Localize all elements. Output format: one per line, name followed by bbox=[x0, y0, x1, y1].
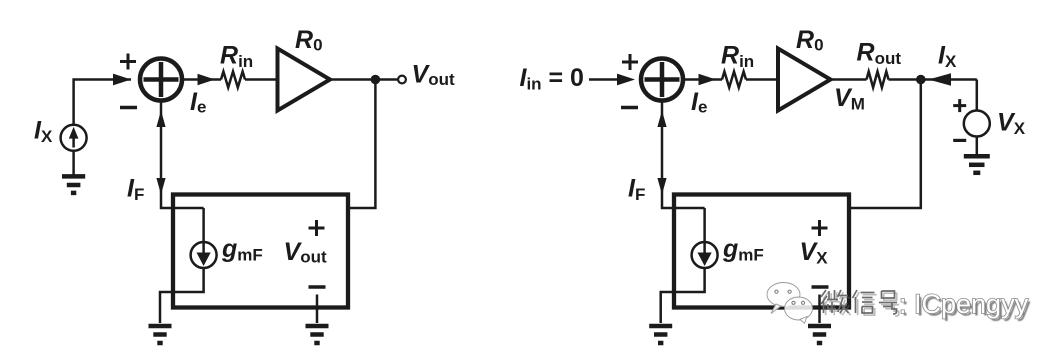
ground G4 bbox=[964, 156, 990, 173]
watermark latin text ICpengyy bbox=[899, 289, 1031, 321]
wire Iin to summing node S2 bbox=[589, 74, 635, 86]
watermark chinese chars shadow bbox=[823, 292, 899, 316]
node Vout1 junction dot bbox=[371, 75, 381, 85]
svg-text:: ICpengyy: : ICpengyy bbox=[899, 289, 1029, 319]
wire Ie1 with arrow bbox=[183, 74, 221, 85]
ground G2 bbox=[149, 326, 172, 343]
stub to ground G3 bbox=[316, 295, 319, 324]
feedback network box F2 bbox=[674, 195, 849, 308]
current source IX1 bbox=[61, 125, 87, 151]
summing node S2 bbox=[641, 59, 683, 101]
sense port minus sign F1 bbox=[309, 285, 326, 288]
sense port plus sign F2 bbox=[812, 220, 828, 236]
ground G3 bbox=[306, 326, 329, 343]
voltage source VX bbox=[964, 111, 990, 137]
resistor Rout2 bbox=[867, 72, 889, 88]
wire corner down to VX bbox=[976, 80, 979, 112]
ground G5 bbox=[649, 326, 672, 343]
ground G1 under IX1 bbox=[62, 151, 85, 193]
plus sign of VX bbox=[953, 99, 966, 112]
controlled source gmF2 bbox=[692, 242, 718, 268]
wire Rin1 to amp A1 bbox=[245, 78, 278, 81]
op-amp A2 bbox=[778, 49, 831, 111]
feedback network box F1 bbox=[173, 195, 348, 308]
wire gmF2 to ground G5 bbox=[661, 268, 705, 323]
plus sign at S2 input bbox=[622, 54, 638, 70]
wire output node to box F1 bbox=[350, 80, 375, 209]
resistor Rin1 bbox=[221, 72, 245, 88]
feedback wire IF2 with arrows bbox=[657, 102, 704, 244]
node X2 junction dot bbox=[916, 75, 926, 85]
wire A2 to resistor Rout2 bbox=[831, 78, 867, 81]
stub to ground G6 bbox=[818, 295, 821, 324]
feedback wire IF1 with arrows bbox=[156, 102, 203, 244]
resistor Rin2 bbox=[722, 72, 746, 88]
wire node X2 to box F2 bbox=[851, 80, 921, 209]
controlled source gmF1 bbox=[191, 242, 217, 268]
wire gmF1 to ground G2 bbox=[160, 268, 204, 323]
wire Ie2 with arrow bbox=[684, 74, 722, 85]
wire VX to ground G4 bbox=[976, 137, 979, 155]
minus sign at S1 bbox=[120, 106, 137, 109]
sense port minus sign F2 bbox=[812, 285, 829, 288]
wire Rin2 to amp A2 bbox=[746, 78, 778, 81]
minus sign at S2 bbox=[621, 106, 638, 109]
ground G6 bbox=[808, 326, 831, 343]
sense port plus sign F1 bbox=[309, 220, 325, 236]
wire A1 to output terminal bbox=[330, 78, 398, 81]
watermark chinese chars wei xin hao bbox=[821, 290, 897, 314]
plus sign at S1 input bbox=[120, 54, 136, 70]
wire IX1 to summing node S1 bbox=[74, 74, 131, 125]
summing node S1 bbox=[140, 59, 182, 101]
op-amp A1 bbox=[278, 49, 331, 111]
arrow IX2 pointing left bbox=[929, 73, 952, 85]
terminal Vout1 open circle bbox=[398, 76, 406, 84]
minus sign of VX bbox=[953, 139, 966, 142]
watermark wechat icon bbox=[767, 283, 813, 324]
wire Rout2 to VX corner bbox=[889, 78, 977, 81]
